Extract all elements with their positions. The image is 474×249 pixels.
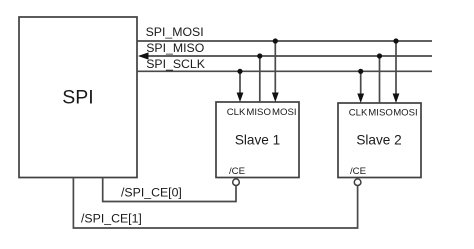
wire /SPI_CE[1]: [73, 178, 357, 229]
svg-text:SPI_MISO: SPI_MISO: [146, 41, 204, 55]
svg-text:MISO: MISO: [246, 107, 271, 118]
svg-text:SPI_MOSI: SPI_MOSI: [146, 25, 204, 39]
junction dot SCLK / Slave1: [237, 69, 242, 74]
wire SPI_SCLK bus: [137, 70, 432, 72]
svg-text:MOSI: MOSI: [272, 107, 297, 118]
svg-text:MISO: MISO: [368, 108, 393, 119]
svg-text:Slave 2: Slave 2: [356, 133, 401, 148]
svg-text:/CE: /CE: [350, 166, 366, 177]
svg-text:Slave 1: Slave 1: [235, 133, 280, 148]
wire SPI_MOSI bus: [137, 40, 432, 42]
pin arrowhead Slave2 MOSI: [393, 94, 400, 104]
svg-text:/CE: /CE: [229, 166, 245, 177]
wire /SPI_CE[0]: [103, 178, 236, 202]
junction dot MOSI / Slave1: [273, 38, 278, 43]
active-low bubble Slave2 /CE: [354, 179, 361, 186]
svg-text:/SPI_CE[0]: /SPI_CE[0]: [121, 186, 182, 200]
pin arrowhead Slave1 CLK: [237, 93, 244, 103]
wire SPI_MISO bus: [140, 55, 432, 57]
arrowhead into SPI on SPI_MISO: [138, 52, 149, 59]
junction dot MISO / Slave2: [377, 53, 382, 58]
svg-text:SPI_SCLK: SPI_SCLK: [146, 57, 206, 71]
slave block U2 (Slave 1): [216, 102, 299, 178]
svg-text:CLK: CLK: [349, 108, 368, 119]
svg-text:CLK: CLK: [227, 107, 246, 118]
junction dot SCLK / Slave2: [358, 69, 363, 74]
junction dot MISO / Slave1: [257, 53, 262, 58]
master block SPI: [19, 17, 137, 178]
wire MOSI to Slave1 MOSI pin: [274, 41, 276, 94]
wire MISO to Slave1 MISO pin: [259, 56, 261, 102]
wire SCLK to Slave1 CLK pin: [239, 71, 241, 94]
svg-text:SPI: SPI: [62, 87, 93, 109]
svg-text:/SPI_CE[1]: /SPI_CE[1]: [81, 212, 142, 226]
wire SCLK to Slave2 CLK pin: [360, 71, 362, 95]
pin arrowhead Slave1 MOSI: [272, 93, 279, 103]
wire MISO to Slave2 MISO pin: [379, 56, 381, 103]
wire MOSI to Slave2 MOSI pin: [395, 41, 397, 95]
slave block U3 (Slave 2): [338, 103, 421, 178]
active-low bubble Slave1 /CE: [233, 179, 240, 186]
junction dot MOSI / Slave2: [393, 38, 398, 43]
pin arrowhead Slave2 CLK: [357, 94, 364, 104]
svg-text:MOSI: MOSI: [393, 108, 418, 119]
